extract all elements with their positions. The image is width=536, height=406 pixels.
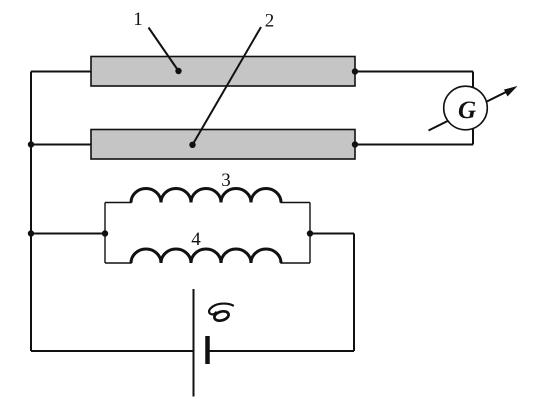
svg-text:G: G xyxy=(458,97,476,124)
svg-text:2: 2 xyxy=(265,11,275,32)
svg-text:4: 4 xyxy=(191,229,201,250)
svg-text:1: 1 xyxy=(133,9,143,30)
svg-text:3: 3 xyxy=(221,170,231,191)
